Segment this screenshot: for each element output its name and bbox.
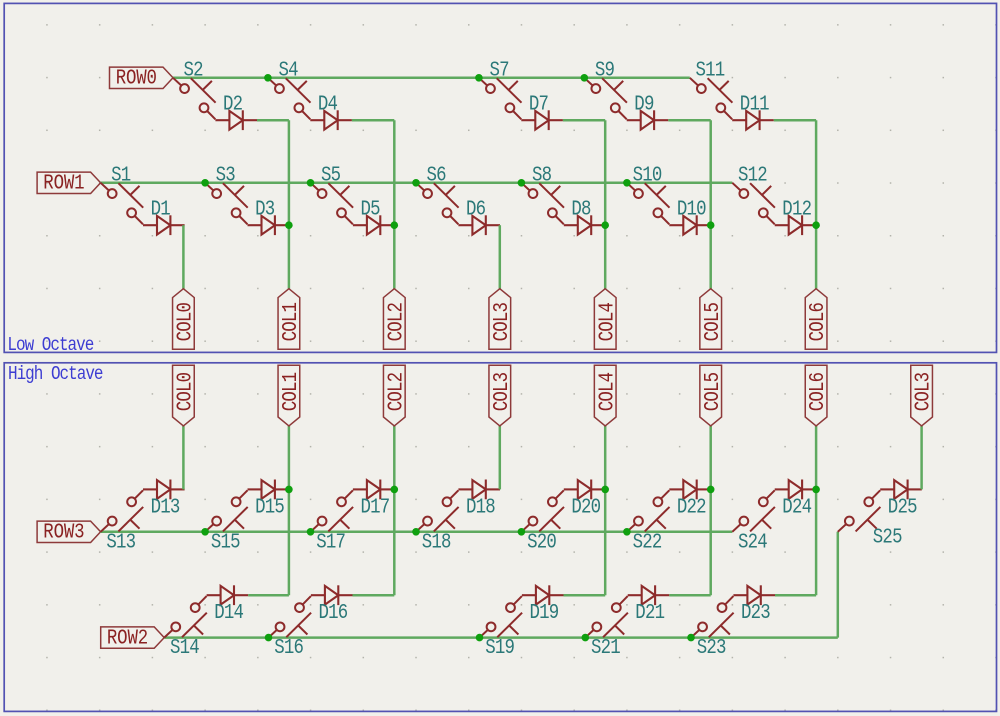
wire COL0 vertical (low octave) — [182, 225, 185, 289]
diode D17 — [353, 480, 395, 519]
switch S15 — [205, 490, 248, 554]
svg-text:ROW0: ROW0 — [116, 66, 157, 90]
diode D25 — [880, 480, 922, 519]
svg-text:S19: S19 — [485, 636, 514, 660]
diode D8 — [564, 197, 606, 235]
svg-text:S17: S17 — [316, 530, 345, 554]
switch S14 — [164, 596, 207, 660]
diode D3 — [248, 197, 290, 235]
svg-text:COL5: COL5 — [700, 372, 724, 411]
global label COL1 — [278, 365, 302, 426]
junction ROW0 at S4 — [264, 74, 272, 82]
svg-text:S12: S12 — [738, 163, 767, 187]
svg-text:D10: D10 — [677, 197, 706, 221]
wire COL3 vertical (high octave) — [499, 426, 502, 490]
wire COL4 vertical (low octave) — [604, 120, 607, 289]
switch S17 — [311, 490, 354, 554]
switch S3 — [205, 163, 248, 224]
diode D18 — [458, 480, 500, 519]
switch S23 — [691, 596, 734, 660]
wire ROW2 bus — [164, 636, 838, 639]
svg-text:S18: S18 — [422, 530, 451, 554]
junction ROW2 at S21 — [582, 634, 590, 642]
svg-text:COL3: COL3 — [490, 303, 514, 342]
svg-text:COL6: COL6 — [806, 303, 830, 342]
svg-text:S3: S3 — [216, 163, 236, 187]
wire ROW1 bus — [101, 182, 733, 185]
switch S9 — [584, 58, 627, 119]
svg-text:S4: S4 — [278, 58, 298, 82]
global label COL2 — [383, 289, 407, 350]
switch S11 — [690, 58, 733, 119]
svg-text:D7: D7 — [529, 92, 549, 116]
svg-text:D4: D4 — [318, 92, 338, 116]
svg-text:COL1: COL1 — [279, 372, 303, 411]
svg-text:D18: D18 — [466, 495, 495, 519]
svg-text:S1: S1 — [111, 163, 131, 187]
svg-text:D22: D22 — [677, 495, 706, 519]
svg-text:D20: D20 — [571, 495, 600, 519]
junction ROW2 at S23 — [687, 634, 695, 642]
diode D6 — [458, 197, 500, 235]
junction COL2 at D level — [391, 221, 399, 229]
wire COL6 vertical (low octave) — [815, 120, 818, 289]
wire D14 cathode to COL1 — [248, 594, 289, 597]
global label ROW1 — [37, 171, 101, 195]
global label COL0 — [173, 365, 197, 426]
wire ROW0 bus — [173, 77, 690, 80]
svg-text:COL3: COL3 — [911, 372, 935, 411]
switch S1 — [101, 163, 144, 224]
wire COL3 vertical (low octave) — [499, 225, 502, 289]
svg-text:S24: S24 — [738, 530, 767, 554]
svg-text:D19: D19 — [530, 601, 559, 625]
svg-text:D17: D17 — [361, 495, 390, 519]
global label COL3 (second, for D25) — [911, 365, 935, 426]
global label COL2 — [383, 365, 407, 426]
svg-text:D1: D1 — [151, 197, 171, 221]
svg-text:D23: D23 — [741, 601, 770, 625]
switch S6 — [416, 163, 459, 224]
svg-text:COL4: COL4 — [595, 372, 619, 411]
wire D2 cathode to COL1 — [257, 119, 289, 122]
junction ROW0 at S7 — [475, 74, 483, 82]
svg-text:ROW2: ROW2 — [107, 626, 148, 650]
junction COL4 at D level (high) — [601, 486, 609, 494]
switch S8 — [521, 163, 564, 224]
wire COL5 vertical (high octave) — [709, 426, 712, 595]
diode D21 — [628, 585, 670, 624]
junction COL5 at D level (high) — [707, 486, 715, 494]
diode D9 — [627, 92, 669, 130]
diode D15 — [248, 480, 290, 519]
svg-text:D5: D5 — [361, 197, 381, 221]
switch S10 — [627, 163, 670, 224]
junction COL6 at D level (high) — [812, 486, 820, 494]
switch S13 — [101, 490, 144, 554]
svg-text:S7: S7 — [489, 58, 509, 82]
sheet box Low Octave — [4, 3, 996, 352]
global label ROW3 — [37, 520, 101, 544]
global label COL3 — [489, 289, 513, 350]
svg-text:S2: S2 — [184, 58, 204, 82]
diode D13 — [143, 480, 185, 519]
switch S12 — [732, 163, 775, 224]
wire D9 cathode to COL5 — [668, 119, 710, 122]
wire D16 cathode to COL2 — [353, 594, 395, 597]
wire COL2 vertical (high octave) — [393, 426, 396, 595]
wire COL4 vertical (high octave) — [604, 426, 607, 595]
svg-text:D3: D3 — [255, 197, 275, 221]
svg-text:D11: D11 — [740, 92, 769, 116]
junction ROW2 at S16 — [265, 634, 273, 642]
wire D23 cathode to COL6 — [775, 594, 816, 597]
svg-text:S9: S9 — [595, 58, 615, 82]
switch S25 — [838, 490, 902, 549]
junction ROW3 at S20 — [518, 528, 526, 536]
junction ROW1 at S8 — [518, 179, 526, 187]
wire D4 cathode to COL2 — [352, 119, 394, 122]
svg-text:COL1: COL1 — [279, 303, 303, 342]
svg-text:S15: S15 — [211, 530, 240, 554]
junction COL5 at D level — [707, 221, 715, 229]
global label COL0 — [173, 289, 197, 350]
diode D2 — [215, 92, 257, 130]
switch S7 — [479, 58, 522, 119]
wire COL2 vertical (low octave) — [393, 120, 396, 289]
wire COL3 vertical for D25 — [920, 426, 923, 490]
diode D24 — [775, 480, 817, 519]
svg-text:S14: S14 — [170, 636, 199, 660]
diode D20 — [564, 480, 606, 519]
global label COL5 — [700, 289, 724, 350]
junction COL2 at D level (high) — [391, 486, 399, 494]
switch S4 — [268, 58, 311, 119]
switch S5 — [311, 163, 354, 224]
global label COL1 — [278, 289, 302, 350]
global label COL6 — [805, 289, 829, 350]
junction ROW0 at S9 — [581, 74, 589, 82]
diode D10 — [669, 197, 711, 235]
junction COL1 at D level — [285, 221, 293, 229]
global label ROW0 — [110, 66, 174, 90]
junction COL1 at D level (high) — [285, 486, 293, 494]
diode D12 — [775, 197, 817, 235]
svg-text:S6: S6 — [427, 163, 447, 187]
svg-text:D8: D8 — [571, 197, 591, 221]
junction ROW1 at S10 — [623, 179, 631, 187]
svg-text:COL0: COL0 — [173, 372, 197, 411]
diode D14 — [207, 585, 249, 624]
junction ROW2 at S19 — [476, 634, 484, 642]
switch S2 — [173, 58, 216, 119]
switch S21 — [585, 596, 628, 660]
junction ROW3 at S17 — [307, 528, 315, 536]
svg-text:S11: S11 — [696, 58, 725, 82]
diode D19 — [522, 585, 564, 624]
junction COL6 at D level — [812, 221, 820, 229]
wire ROW2 riser to S25 — [837, 532, 840, 638]
svg-text:S16: S16 — [274, 636, 303, 660]
svg-text:COL3: COL3 — [490, 372, 514, 411]
junction ROW1 at S5 — [307, 179, 315, 187]
junction ROW3 at S22 — [623, 528, 631, 536]
switch S20 — [521, 490, 564, 554]
wire COL6 vertical (high octave) — [815, 426, 818, 595]
junction COL4 at D level — [601, 221, 609, 229]
svg-text:COL2: COL2 — [384, 372, 408, 411]
wire D7 cathode to COL4 — [563, 119, 605, 122]
diode D7 — [521, 92, 563, 130]
svg-text:D2: D2 — [223, 92, 243, 116]
diode D16 — [311, 585, 353, 624]
junction ROW1 at S3 — [201, 179, 209, 187]
wire D19 cathode to COL4 — [564, 594, 606, 597]
diode D22 — [669, 480, 711, 519]
svg-text:D14: D14 — [214, 601, 243, 625]
global label COL6 — [805, 365, 829, 426]
diode D11 — [732, 92, 774, 130]
diode D4 — [310, 92, 352, 130]
switch S19 — [480, 596, 523, 660]
svg-text:D24: D24 — [782, 495, 811, 519]
global label ROW2 — [101, 626, 165, 650]
svg-text:COL0: COL0 — [173, 303, 197, 342]
global label COL5 — [700, 365, 724, 426]
svg-text:COL5: COL5 — [700, 303, 724, 342]
wire ROW3 bus — [101, 531, 733, 534]
wire D21 cathode to COL5 — [669, 594, 710, 597]
junction ROW3 at S18 — [412, 528, 420, 536]
svg-text:D13: D13 — [151, 495, 180, 519]
diode D5 — [353, 197, 395, 235]
global label COL4 — [594, 365, 618, 426]
svg-text:Low Octave: Low Octave — [7, 335, 93, 357]
svg-text:D15: D15 — [255, 495, 284, 519]
svg-text:S23: S23 — [697, 636, 726, 660]
wire D11 cathode to COL6 — [774, 119, 816, 122]
switch S18 — [416, 490, 459, 554]
svg-text:D12: D12 — [782, 197, 811, 221]
svg-text:D16: D16 — [319, 601, 348, 625]
svg-text:COL2: COL2 — [384, 303, 408, 342]
svg-text:S13: S13 — [106, 530, 135, 554]
svg-text:D9: D9 — [634, 92, 654, 116]
wire COL1 vertical (low octave) — [288, 120, 291, 289]
svg-text:ROW1: ROW1 — [43, 171, 84, 195]
svg-text:S25: S25 — [873, 525, 902, 549]
svg-text:S21: S21 — [591, 636, 620, 660]
diode D1 — [143, 197, 185, 235]
switch S16 — [269, 596, 312, 660]
global label COL4 — [594, 289, 618, 350]
wire COL5 vertical (low octave) — [709, 120, 712, 289]
svg-text:High Octave: High Octave — [8, 364, 103, 386]
junction ROW3 at S15 — [201, 528, 209, 536]
svg-text:COL4: COL4 — [595, 303, 619, 342]
svg-text:S20: S20 — [527, 530, 556, 554]
svg-text:ROW3: ROW3 — [43, 520, 84, 544]
switch S24 — [732, 490, 775, 554]
svg-text:S8: S8 — [532, 163, 552, 187]
svg-text:S22: S22 — [633, 530, 662, 554]
wire COL0 vertical (high octave) — [182, 426, 185, 490]
svg-text:S5: S5 — [321, 163, 341, 187]
wire COL1 vertical (high octave) — [288, 426, 291, 595]
svg-text:COL6: COL6 — [806, 372, 830, 411]
svg-text:D6: D6 — [466, 197, 486, 221]
sheet box High Octave — [4, 363, 996, 712]
junction ROW1 at S6 — [412, 179, 420, 187]
svg-text:D21: D21 — [635, 601, 664, 625]
svg-text:D25: D25 — [888, 495, 917, 519]
diode D23 — [733, 585, 775, 624]
switch S22 — [627, 490, 670, 554]
svg-text:S10: S10 — [633, 163, 662, 187]
global label COL3 — [489, 365, 513, 426]
